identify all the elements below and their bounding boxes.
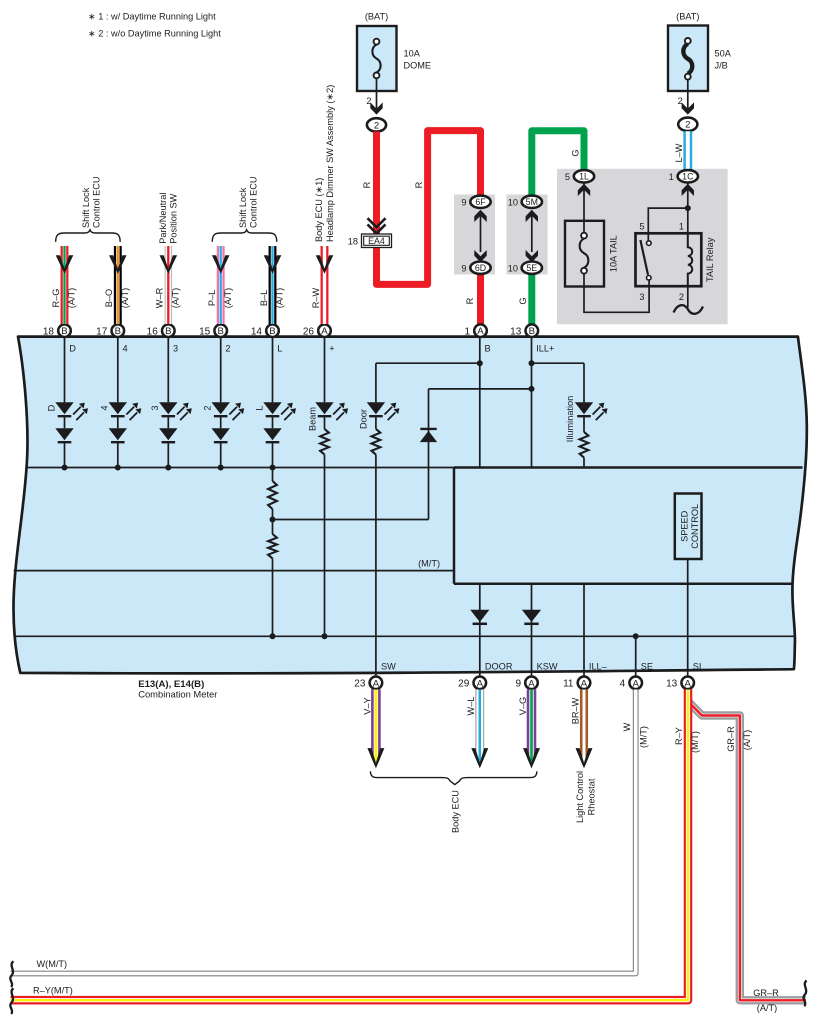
svg-text:Park/Neutral: Park/Neutral <box>158 193 168 244</box>
svg-text:10A TAIL: 10A TAIL <box>608 235 618 272</box>
meter pin 17(B) top <box>96 324 124 337</box>
junction on 1C wire <box>685 205 691 211</box>
svg-text:B: B <box>115 326 121 337</box>
svg-text:Light Control: Light Control <box>575 771 585 823</box>
inner unit box bottom edge <box>454 583 792 586</box>
indicator LED column 2 <box>203 337 245 471</box>
svg-text:A: A <box>373 678 380 689</box>
svg-text:Position SW: Position SW <box>169 193 179 243</box>
inter-connector link 5M-5E <box>526 210 538 262</box>
meter pin 23(A) bottom <box>354 677 382 690</box>
svg-text:B–O: B–O <box>104 289 114 307</box>
fuse 50A J/B <box>668 12 732 92</box>
brace Body ECU <box>370 771 537 784</box>
svg-text:10: 10 <box>508 198 518 208</box>
svg-text:Control ECU: Control ECU <box>249 176 259 228</box>
label Park/Neutral Position SW <box>158 193 179 244</box>
svg-text:(A/T): (A/T) <box>742 730 752 750</box>
svg-text:9: 9 <box>461 198 466 208</box>
connector 5M pin 10 <box>508 196 542 208</box>
combination meter E13(A), E14(B) body <box>14 337 807 674</box>
svg-text:10: 10 <box>508 263 518 273</box>
arrow into connector 2 (J/B) <box>682 102 694 114</box>
wire G over to 1L and down to 5M <box>532 131 584 196</box>
svg-text:SW: SW <box>381 661 396 671</box>
wire R-G to meter <box>51 246 77 324</box>
svg-text:17: 17 <box>96 327 108 338</box>
wire junction to relay pin 5 <box>648 208 688 233</box>
svg-text:A: A <box>581 678 588 689</box>
svg-text:50A: 50A <box>715 49 732 59</box>
meter name label <box>138 679 217 700</box>
svg-text:(BAT): (BAT) <box>365 12 388 22</box>
svg-text:18: 18 <box>348 236 358 246</box>
connector block 6F/6D background <box>454 195 495 275</box>
meter pin 13(B) top <box>510 324 538 337</box>
pin name labels (bottom row) <box>381 661 701 671</box>
brace Shift Lock Control ECU (left) <box>56 230 121 242</box>
svg-text:Combination Meter: Combination Meter <box>138 689 217 700</box>
wire B-O to meter <box>104 246 130 324</box>
resistor chain below L column <box>268 468 277 640</box>
svg-text:Headlamp Dimmer SW Assembly (∗: Headlamp Dimmer SW Assembly (∗2) <box>325 85 335 242</box>
svg-text:A: A <box>321 326 328 337</box>
svg-text:B: B <box>269 326 275 337</box>
svg-text:V–Y: V–Y <box>362 697 372 714</box>
svg-text:(A/T): (A/T) <box>223 288 233 308</box>
arrow below 1C <box>682 184 694 196</box>
svg-text:W: W <box>622 722 632 731</box>
meter pin 18(B) top <box>43 324 71 337</box>
svg-text:1L: 1L <box>579 172 589 182</box>
connector 5E pin 10 <box>508 262 542 274</box>
svg-text:(A/T): (A/T) <box>120 288 130 308</box>
continuation squiggle GR-R <box>803 981 806 1007</box>
meter pin 4(A) bottom <box>620 677 642 690</box>
inner unit box left edge <box>453 468 456 584</box>
brace Shift Lock Control ECU (right) <box>212 230 277 242</box>
svg-text:B: B <box>61 326 67 337</box>
svg-text:B–L: B–L <box>259 290 269 306</box>
svg-text:(A/T): (A/T) <box>757 1003 777 1013</box>
label GR-R (A/T) bottom <box>753 988 779 1013</box>
svg-text:CONTROL: CONTROL <box>690 504 700 549</box>
wire Door column to B column <box>376 362 480 364</box>
svg-text:16: 16 <box>147 327 159 338</box>
wire R-W to meter <box>311 246 333 324</box>
svg-text:W–L: W–L <box>466 697 476 716</box>
svg-text:2: 2 <box>685 120 690 131</box>
SPEED CONTROL unit <box>675 494 702 560</box>
svg-text:R–G: R–G <box>51 289 61 308</box>
svg-text:1: 1 <box>679 222 684 232</box>
connector 1L pin 5 <box>565 170 594 182</box>
svg-text:B: B <box>485 344 491 354</box>
meter pin 29(A) bottom <box>458 677 486 690</box>
wire SPEED CONTROL to SI pin <box>687 559 689 676</box>
svg-text:L–W: L–W <box>674 143 684 162</box>
meter pin 11(A) bottom <box>563 677 590 690</box>
svg-text:Rheostat: Rheostat <box>587 778 597 815</box>
svg-text:4: 4 <box>123 344 128 354</box>
diode to KSW pin <box>522 584 541 677</box>
svg-text:R–W: R–W <box>311 287 321 308</box>
svg-text:BR–W: BR–W <box>570 697 580 724</box>
svg-text:(A/T): (A/T) <box>171 288 181 308</box>
wire GR-R (A/T) <box>689 702 807 1000</box>
wire G from 5E to meter pin 13(B) <box>528 274 535 325</box>
svg-text:R–Y: R–Y <box>674 727 684 745</box>
wire from DOME fuse pin 2 <box>366 78 376 112</box>
svg-text:10A: 10A <box>404 49 421 59</box>
svg-text:B: B <box>529 326 535 337</box>
wire R from 6D to meter pin 1(A) <box>477 274 484 325</box>
Door LED column <box>359 363 400 676</box>
Beam LED column <box>307 337 348 640</box>
label Shift Lock Control ECU (right) <box>238 176 259 228</box>
svg-text:A: A <box>477 678 484 689</box>
connector EA4 pin 18 <box>348 234 392 248</box>
wire R from EA4 up-over to 6F <box>377 131 481 285</box>
continuation squiggle R-Y(M/T) <box>10 988 13 1014</box>
svg-text:∗ 1 : w/ Daytime Running Light: ∗ 1 : w/ Daytime Running Light <box>88 12 216 22</box>
svg-text:B: B <box>217 326 223 337</box>
wire V-Y to Body ECU <box>362 690 384 769</box>
splice marker into EA4 <box>368 218 386 233</box>
svg-text:3: 3 <box>639 292 644 302</box>
wire bus2 to SE pin <box>633 633 639 676</box>
wire 1L to 10A TAIL fuse <box>583 184 585 233</box>
svg-text:11: 11 <box>563 679 574 690</box>
svg-text:A: A <box>477 326 484 337</box>
wire B-L to meter <box>259 246 285 324</box>
svg-text:Shift Lock: Shift Lock <box>238 187 248 228</box>
indicator LED column 3 <box>150 337 192 471</box>
note: daytime running light legend <box>88 12 221 39</box>
svg-text:TAIL Relay: TAIL Relay <box>705 237 715 282</box>
arrow into connector 2 (DOME) <box>370 102 382 114</box>
svg-text:3: 3 <box>173 344 178 354</box>
svg-text:4: 4 <box>620 679 626 690</box>
svg-text:GR–R: GR–R <box>726 726 736 752</box>
svg-text:(M/T): (M/T) <box>690 731 700 753</box>
svg-text:(M/T): (M/T) <box>418 559 440 569</box>
Illumination LED column <box>532 363 608 457</box>
svg-text:G: G <box>518 297 528 304</box>
svg-text:(A/T): (A/T) <box>275 288 285 308</box>
svg-text:D: D <box>46 404 56 411</box>
continuation squiggle below relay <box>674 305 704 314</box>
wire from J/B fuse pin 2 <box>678 80 688 113</box>
svg-text:Shift Lock: Shift Lock <box>81 187 91 228</box>
svg-text:5: 5 <box>639 222 644 232</box>
diode to DOOR pin <box>470 584 489 677</box>
wire BR-W to light control rheostat <box>570 690 592 769</box>
svg-text:26: 26 <box>303 327 315 338</box>
wire 1C to relay coil pin 1 <box>687 184 689 234</box>
indicator LED column L <box>254 337 296 471</box>
wire W-L to Body ECU <box>466 690 488 769</box>
TAIL relay block background <box>557 169 728 324</box>
svg-text:KSW: KSW <box>537 661 558 671</box>
svg-text:A: A <box>528 678 535 689</box>
diode to ILL+ <box>420 389 532 520</box>
svg-text:29: 29 <box>458 679 470 690</box>
svg-text:SI: SI <box>693 661 702 671</box>
wire R-Y (M/T) <box>11 690 701 1001</box>
label Light Control Rheostat <box>575 771 597 823</box>
svg-text:Control ECU: Control ECU <box>92 176 102 228</box>
svg-text:A: A <box>684 678 691 689</box>
svg-text:Door: Door <box>359 409 369 429</box>
wire R from DOME connector to EA4 <box>373 132 380 234</box>
svg-text:DOOR: DOOR <box>485 661 513 671</box>
svg-text:R: R <box>362 181 372 188</box>
svg-text:5E: 5E <box>526 263 537 273</box>
wire P-L to meter <box>207 246 233 324</box>
svg-text:23: 23 <box>354 679 366 690</box>
svg-text:V–G: V–G <box>518 697 528 715</box>
relay coil <box>688 233 692 286</box>
wire 10A TAIL to relay pin 3 <box>584 274 649 313</box>
pin name labels (top row) <box>69 344 554 354</box>
inner unit box top edge <box>454 466 803 469</box>
meter pin 14(B) top <box>251 324 279 337</box>
meter pin 1(A) top <box>464 324 486 337</box>
svg-text:Beam: Beam <box>307 407 317 431</box>
meter pin 16(B) top <box>147 324 175 337</box>
svg-text:3: 3 <box>150 405 160 410</box>
wire inner unit to ILL- pin <box>583 584 585 677</box>
fuse 10A TAIL <box>565 221 618 287</box>
svg-text:∗ 2 : w/o Daytime Running Ligh: ∗ 2 : w/o Daytime Running Light <box>88 29 221 39</box>
svg-text:L: L <box>254 405 264 410</box>
svg-text:6D: 6D <box>475 263 486 273</box>
continuation squiggle W(M/T) <box>10 961 13 987</box>
svg-text:2: 2 <box>679 292 684 302</box>
indicator LED column D <box>46 337 88 471</box>
meter pin 15(B) top <box>199 324 227 337</box>
svg-text:9: 9 <box>515 679 521 690</box>
internal wire (M/T) <box>14 559 454 571</box>
svg-text:18: 18 <box>43 327 55 338</box>
svg-text:DOME: DOME <box>404 61 432 71</box>
connector 1C pin 1 <box>669 170 698 182</box>
svg-text:G: G <box>570 149 580 156</box>
inter-connector link 6F-6D <box>474 210 486 262</box>
svg-text:EA4: EA4 <box>368 236 385 246</box>
svg-text:13: 13 <box>666 679 678 690</box>
label Body ECU / Headlamp Dimmer SW Assembly <box>314 85 335 242</box>
svg-text:1C: 1C <box>682 172 694 182</box>
wire W (M/T) <box>11 690 649 974</box>
svg-text:ILL–: ILL– <box>589 661 608 671</box>
wire V-G to Body ECU <box>518 690 540 769</box>
svg-text:(BAT): (BAT) <box>676 12 699 22</box>
svg-text:A: A <box>632 678 639 689</box>
svg-text:4: 4 <box>100 405 110 410</box>
internal bus 2 <box>14 635 795 637</box>
svg-text:13: 13 <box>510 327 522 338</box>
svg-text:Body ECU: Body ECU <box>450 790 460 833</box>
wire B pin to inner unit <box>477 337 483 468</box>
svg-text:(M/T): (M/T) <box>638 726 648 748</box>
svg-text:W–R: W–R <box>155 287 165 308</box>
arrow below 1L <box>578 184 590 196</box>
connector node 2 (J/B) <box>678 118 697 131</box>
TAIL relay <box>636 222 716 303</box>
svg-text:R: R <box>465 297 475 304</box>
svg-text:W(M/T): W(M/T) <box>37 959 68 969</box>
meter pin 9(A) bottom <box>515 677 537 690</box>
connector node 2 (DOME) <box>367 118 386 131</box>
svg-text:1: 1 <box>464 327 470 338</box>
connector 6F pin 9 <box>461 196 490 208</box>
svg-text:D: D <box>69 344 76 354</box>
svg-text:R–Y(M/T): R–Y(M/T) <box>33 986 73 996</box>
wire below relay pin 2 <box>687 286 689 307</box>
svg-text:2: 2 <box>225 344 230 354</box>
connector 6D pin 9 <box>461 262 490 274</box>
svg-text:5: 5 <box>565 172 570 182</box>
svg-text:(A/T): (A/T) <box>67 288 77 308</box>
svg-text:P–L: P–L <box>207 290 217 306</box>
svg-text:SPEED: SPEED <box>680 510 690 542</box>
wire W-R to meter <box>155 246 181 324</box>
svg-text:ILL+: ILL+ <box>536 344 554 354</box>
svg-text:Illumination: Illumination <box>565 396 575 442</box>
wire from L resistor junction to diode column <box>273 519 429 521</box>
Illumination column tail and label <box>565 396 584 468</box>
svg-text:14: 14 <box>251 327 263 338</box>
svg-text:GR–R: GR–R <box>753 988 779 998</box>
wire L-W from J/B connector to 1C <box>683 131 692 170</box>
svg-text:J/B: J/B <box>715 61 728 71</box>
fuse 10A DOME <box>357 12 431 92</box>
svg-text:B: B <box>165 326 171 337</box>
svg-text:Body ECU (∗1): Body ECU (∗1) <box>314 178 324 242</box>
wire ILL+ pin to inner unit <box>529 337 535 468</box>
internal bus (LED cathode bus) <box>27 467 454 469</box>
svg-text:6F: 6F <box>475 197 486 207</box>
svg-text:SE: SE <box>641 661 653 671</box>
connector block 5M/5E background <box>507 195 548 275</box>
meter pin 26(A) top <box>303 324 331 337</box>
svg-text:15: 15 <box>199 327 211 338</box>
label Shift Lock Control ECU (left) <box>81 176 102 228</box>
meter pin 13(A) bottom <box>666 677 694 690</box>
svg-text:2: 2 <box>374 120 379 131</box>
svg-text:1: 1 <box>669 172 674 182</box>
indicator LED column 4 <box>100 337 142 471</box>
svg-text:R: R <box>414 181 424 188</box>
svg-text:9: 9 <box>461 263 466 273</box>
svg-text:5M: 5M <box>526 197 538 207</box>
svg-text:+: + <box>329 344 334 354</box>
svg-text:2: 2 <box>203 405 213 410</box>
svg-text:L: L <box>277 344 282 354</box>
